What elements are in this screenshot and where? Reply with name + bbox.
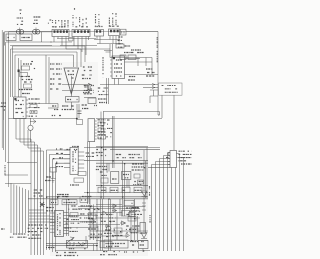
wire extra pair U7r: [67, 199, 69, 236]
wire stair2: [20, 142, 35, 255]
wire bm h163: [96, 162, 148, 164]
wire CN3 drops: [97, 36, 100, 44]
wire CN4 to frame: [126, 31, 158, 33]
wire nested drop l3: [14, 55, 16, 97]
component box bm E: [101, 178, 108, 183]
value label left margin tiny: [1, 102, 6, 104]
wire frame left: [8, 32, 10, 188]
value label col b: [34, 68, 35, 70]
component row bm: [98, 187, 106, 193]
component box col C4: [24, 84, 32, 88]
wire left gnd drop: [52, 172, 54, 178]
value label bmr5: [126, 225, 139, 227]
component box blm1: [50, 200, 58, 205]
diode D3 arrow: [30, 120, 36, 124]
component box interconn: [69, 37, 73, 41]
value label U3 pins left: [102, 57, 104, 78]
wire title drop2: [161, 95, 163, 118]
wire tri out: [70, 102, 72, 110]
value label bme i: [130, 241, 144, 243]
wire h204: [96, 203, 122, 205]
wire h5: [94, 39, 120, 41]
component box bme5: [130, 228, 138, 233]
wire frame top: [9, 31, 159, 33]
value label row above CN4: [109, 25, 119, 27]
wire nested drop r4: [73, 55, 75, 67]
value label tri right1: [83, 66, 92, 68]
component box bme3: [114, 228, 122, 233]
IC U1: [14, 97, 27, 119]
wire arrow mid: [84, 97, 96, 99]
wire page edge line 2: [3, 33, 5, 120]
wire bm h196: [46, 196, 148, 198]
component box bmx2: [134, 174, 140, 178]
wire CN2 drops: [74, 37, 89, 56]
wire long h 149: [110, 148, 160, 150]
value label bm D: [132, 163, 144, 165]
wire pair x112: [113, 116, 115, 168]
wire CN7 fan3: [160, 159, 171, 252]
value label bus left labels: [13, 233, 25, 235]
component box blm3: [80, 197, 88, 203]
wire U3 out right1: [125, 58, 141, 60]
wire tri apex: [70, 94, 72, 97]
value label 21: [94, 105, 97, 107]
wire stair3b: [28, 148, 41, 255]
component box C12: [116, 44, 124, 48]
component box blm2: [62, 200, 77, 205]
wire U1 drop d: [27, 130, 29, 148]
value label col a: [31, 61, 33, 63]
wire tri inner line: [70, 76, 72, 94]
diode D10: [126, 234, 130, 238]
ground GND1: [104, 51, 112, 53]
value label col d: [19, 89, 32, 91]
wire left drop: [4, 32, 6, 46]
value label vertical title text: [156, 37, 158, 62]
component box U4c: [98, 135, 106, 140]
value label bmr4: [101, 214, 114, 216]
wire CN4 drops: [110, 36, 119, 44]
wire T2 drop: [41, 32, 43, 42]
wire U4 pins right: [95, 120, 97, 122]
wire U5 left pins: [64, 149, 70, 151]
wire stair3c: [31, 151, 44, 255]
wire lower left bus: [10, 183, 12, 233]
value label bm mid2: [116, 154, 140, 156]
component box bmr1: [124, 200, 134, 206]
wire extra pair bm: [86, 236, 94, 251]
value label mid c2: [82, 104, 87, 106]
IC U4: [88, 119, 95, 142]
value label bmr2: [126, 207, 139, 209]
value label bmr1: [132, 202, 133, 204]
value label col f: [23, 63, 32, 65]
wire bm h245: [46, 245, 98, 247]
wire nest corner4: [29, 218, 53, 220]
value label row above CN2: [75, 26, 88, 28]
value label left rot: [4, 165, 6, 176]
node J col: [18, 70, 20, 73]
wire Q1 leads: [30, 118, 32, 142]
IC U7: [55, 211, 64, 237]
wire bm h160: [84, 160, 148, 162]
value label bottom text2: [124, 251, 138, 253]
diode D7: [120, 221, 126, 225]
value label D col: [149, 215, 151, 223]
component box xtal: [74, 178, 84, 182]
value label col g: [21, 76, 30, 78]
wire bm v145: [146, 148, 148, 199]
value label bus mid labels2: [28, 234, 41, 236]
wire bus h3: [60, 45, 97, 47]
wire stair5: [50, 154, 71, 250]
component box U1r2: [30, 111, 37, 114]
connector CN1 contacts: [54, 30, 68, 33]
wire stair4: [47, 150, 71, 250]
wire bus h1: [57, 38, 96, 40]
value label U3 right: [129, 76, 136, 78]
wire CN7 fan2: [164, 156, 171, 252]
wire left h traces: [5, 163, 37, 184]
value label tri right3: [84, 85, 94, 87]
wire arrowheads frame: [152, 84, 155, 89]
value label D1: [149, 186, 151, 196]
value label bm top2: [96, 149, 106, 151]
component box mid: [77, 120, 83, 125]
node X cluster: [40, 202, 45, 207]
value label title text: [162, 85, 176, 87]
wire frame right: [157, 32, 159, 116]
value label blm3: [81, 199, 86, 201]
wire D column2: [143, 197, 145, 232]
value label CN2 pins: [72, 15, 74, 27]
value label bm A: [0, 0, 1, 1]
wire U4 left: [88, 142, 90, 205]
component box bme2: [90, 226, 98, 231]
node haze3: [48, 62, 98, 110]
value label mid c1: [62, 105, 74, 107]
value label col e: [22, 93, 30, 95]
component box bmz2: [129, 213, 136, 217]
value label CN7 labels: [179, 150, 192, 152]
potentiometer VR1: [66, 237, 74, 244]
component box bmb2: [104, 240, 128, 248]
value label left stack: [118, 36, 122, 38]
wire U3 pins left: [110, 60, 112, 76]
value label right margin: [146, 68, 152, 70]
wire bus h4: [66, 48, 110, 50]
value label U5 left: [56, 148, 63, 150]
value label bmz3: [105, 229, 115, 231]
value label U7 right rows2: [71, 205, 92, 207]
wire h206: [78, 205, 145, 207]
connector CN3: [95, 30, 104, 37]
wire right h167: [148, 167, 170, 169]
node haze2: [50, 196, 148, 256]
wire h208: [78, 208, 140, 210]
wire tri left v1: [45, 55, 47, 104]
wire nested drop r3: [76, 52, 78, 67]
wire CN7 fan1: [168, 153, 171, 252]
wire h6: [97, 43, 123, 45]
wire bm h192: [84, 192, 148, 194]
wire bm extra h5: [88, 235, 128, 237]
component box col R2: [22, 66, 30, 70]
connector CN4 contacts: [110, 30, 119, 33]
value label U3 inner: [116, 59, 122, 61]
value label step: [52, 105, 56, 107]
wire nested n4: [15, 54, 74, 56]
transistor Q1: [28, 125, 33, 130]
value label bmz1: [132, 207, 139, 209]
component box bme4: [128, 217, 136, 222]
value label tri left col1: [50, 63, 55, 65]
wire bm extra v2: [117, 199, 138, 240]
connector CN1: [52, 30, 69, 37]
wire nested drop l2: [12, 52, 14, 97]
component box R22: [128, 55, 136, 60]
component box AC filter: [6, 34, 16, 41]
value label bm B: [123, 174, 129, 176]
value label bme b: [90, 233, 102, 235]
value label row above CN3: [95, 26, 103, 28]
wire below AC 2: [10, 45, 52, 47]
component box bm B: [122, 172, 131, 180]
value label line filter: [22, 37, 30, 39]
wire bm extra h1: [88, 212, 122, 214]
wire bm h185: [96, 184, 148, 186]
wire U7 right h: [69, 216, 99, 228]
wire bm h240: [96, 239, 148, 241]
wire below AC: [6, 41, 52, 43]
value label tri right2: [82, 74, 92, 76]
value label bme c: [112, 235, 123, 237]
wire pair mid: [107, 78, 109, 104]
wire long h 147: [84, 147, 160, 149]
wire CN7 fan5: [152, 165, 171, 252]
connector CN4: [109, 29, 120, 36]
value label row14: [124, 52, 144, 54]
IC U3: [112, 56, 125, 79]
wire AC line: [5, 31, 53, 33]
value label right cluster: [84, 86, 90, 88]
value label tri left col2: [56, 63, 62, 65]
component box bm A: [111, 172, 119, 184]
wire bus h2: [50, 41, 72, 43]
wire U5 right pins: [78, 151, 84, 153]
value label CN4 pins: [108, 18, 110, 26]
value label row13: [131, 49, 141, 51]
connector CN2: [72, 30, 90, 37]
wire v108 pair: [109, 199, 111, 251]
diode D5: [112, 204, 117, 208]
component box U1r1: [30, 105, 37, 108]
value label U4 right2: [107, 119, 110, 121]
value label T1 area: [17, 17, 23, 19]
value label bme e: [46, 247, 55, 249]
value label bmx1: [100, 171, 107, 173]
value label bottom text1: [103, 251, 120, 253]
value label bme j: [88, 218, 93, 220]
wire tri left v2: [48, 57, 50, 104]
wire mid h 118: [9, 118, 77, 120]
component box U4a: [98, 122, 104, 125]
wire bm h199: [28, 198, 148, 200]
wire stair1: [16, 139, 31, 255]
value label C1: [50, 19, 52, 21]
transformer T1: [16, 30, 23, 35]
node U1 dot: [14, 98, 16, 100]
transistor Q5: [107, 226, 111, 230]
wire U1 drop a: [15, 119, 17, 140]
value label bme g: [64, 227, 77, 229]
wire U3 bottom drops: [115, 79, 119, 85]
wire CN7 right1: [177, 154, 180, 252]
wire bm h250: [55, 250, 150, 252]
component box U7 r: [70, 213, 78, 218]
wire col v1: [18, 58, 20, 97]
wire col v2: [20, 60, 22, 97]
wire br box: [142, 249, 144, 253]
connector CN3 contacts: [96, 30, 101, 33]
component marks K1: [122, 31, 124, 34]
component box R21: [120, 55, 126, 60]
component box right small: [88, 98, 96, 104]
node haze1: [96, 146, 148, 200]
value label tri inner: [68, 70, 75, 72]
value label row above CN1: [53, 26, 66, 28]
value label CN2 tall: [74, 8, 76, 10]
wire left v3: [3, 32, 5, 150]
value label U4 pin rows: [98, 119, 106, 121]
component box relay: [67, 240, 88, 248]
wire bm extra h4: [96, 230, 148, 232]
value label col h: [24, 81, 32, 83]
wire v100 pair: [101, 199, 103, 251]
IC U5: [70, 147, 78, 174]
value label U3 low cluster2: [98, 98, 107, 100]
wire bm extra h2: [96, 217, 140, 219]
component marks mid: [78, 111, 82, 114]
component box K1: [121, 29, 127, 35]
wire step left: [36, 104, 58, 109]
value label U3 low cluster: [98, 87, 108, 89]
value label U1 inner: [16, 100, 24, 102]
wire nested drop r2: [80, 49, 82, 67]
value label blm top: [57, 194, 69, 196]
wire T1 stub: [20, 28, 36, 30]
diode D9: [103, 211, 107, 215]
wire CN7 right2: [177, 158, 184, 252]
value label AC filter: [8, 37, 15, 39]
component box line filter: [20, 34, 32, 41]
wire U7 left pins: [50, 212, 55, 214]
value label bottom left text: [56, 252, 76, 254]
wire bm h243: [46, 243, 98, 245]
value label bm row: [101, 189, 106, 191]
wire nested drop r1: [84, 46, 86, 62]
wire h7: [110, 57, 152, 59]
wire nested n2: [11, 49, 82, 50]
component box bmx3: [138, 180, 144, 184]
value label CN3 pins: [95, 14, 97, 26]
value label CN7 below: [168, 153, 169, 155]
node junction dots: [100, 196, 101, 197]
component box bme1: [89, 214, 97, 219]
value label CN1 pins: [52, 20, 54, 27]
component small left: [50, 168, 57, 173]
wire bm v122: [123, 161, 125, 216]
value label bus mid labels: [28, 224, 46, 226]
node U3 dot: [113, 57, 115, 59]
wire nest corner3: [29, 215, 50, 217]
connector CN7: [170, 151, 177, 168]
value label col c: [22, 79, 33, 81]
value label bme h: [57, 196, 69, 198]
wire CN1 drops: [54, 37, 66, 50]
wire long mid h2: [103, 112, 160, 116]
wire nest corner1: [29, 209, 44, 211]
wire U3 right3: [125, 74, 159, 76]
wire D column: [143, 150, 145, 191]
wire page edge line: [1, 30, 3, 148]
value label U7 inner: [57, 214, 59, 235]
transformer T2: [33, 30, 40, 35]
wire corner right: [150, 90, 158, 96]
wire title drop: [173, 95, 175, 150]
wire long h 84: [100, 84, 158, 86]
value label small bl: [0, 0, 1, 1]
wire bm extra h3: [88, 224, 120, 226]
wire U7 right pins: [64, 212, 69, 214]
value label bme d: [46, 207, 54, 209]
wire pair drop: [110, 44, 113, 58]
value label bm top1: [72, 146, 79, 148]
wire tri arrow2: [62, 89, 92, 91]
value label small top2: [20, 13, 21, 15]
component box title: [159, 83, 183, 95]
component box under tri: [66, 97, 80, 103]
wire corner right2: [149, 96, 151, 103]
wire stair6: [53, 159, 71, 252]
wire U1 pins right: [26, 100, 28, 116]
value label small top: [19, 9, 21, 11]
value label U1 right rows: [29, 98, 40, 100]
value label bm mid1: [86, 152, 95, 154]
wire bmx stubs: [107, 163, 129, 187]
value label U7 below: [66, 245, 84, 247]
node J118: [76, 118, 78, 120]
diode D6: [112, 209, 117, 213]
wire CN7 fan4: [156, 162, 171, 252]
value label C12: [125, 45, 131, 47]
component box U4b: [98, 128, 104, 131]
value label left text mid: [34, 189, 43, 191]
diode D2: [141, 233, 147, 239]
diode D11: [105, 224, 110, 228]
value label fuse F1: [34, 16, 41, 18]
value label U7 right rows: [80, 213, 92, 215]
component box col R3: [20, 73, 28, 77]
wire nest corner5: [29, 221, 56, 223]
wire nested n3: [13, 51, 78, 53]
diode D8: [92, 220, 96, 224]
wire nest corner2: [29, 212, 47, 214]
wire stair7: [56, 163, 71, 252]
wire stair3: [24, 145, 38, 255]
value label bmx4: [134, 181, 143, 183]
